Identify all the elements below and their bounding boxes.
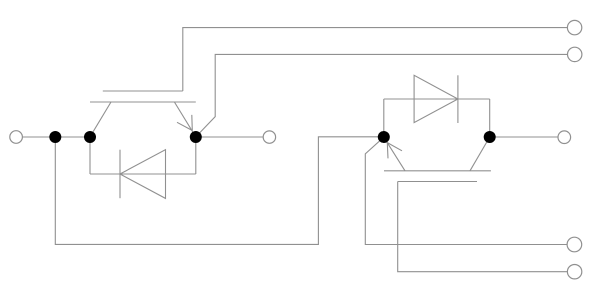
wire node D4 riser to diode D2 bbox=[383, 99, 385, 137]
IGBT Q1 emitter slant bbox=[174, 102, 195, 137]
wire node D5 riser from diode D2 bbox=[489, 99, 491, 137]
wire diode D1 horizontal bbox=[90, 173, 196, 175]
IGBT Q1 collector slant bbox=[90, 102, 111, 137]
wire main left terminal to node chain bbox=[22, 136, 90, 138]
junction dot D1 bbox=[49, 131, 61, 143]
wire node D3 up from diode bbox=[195, 137, 197, 174]
wire aux emitter E1 diagonal riser and top run bbox=[196, 54, 568, 136]
IGBT Q2 body bar bbox=[384, 170, 491, 172]
wire gate G2 drop and bottom run bbox=[398, 182, 568, 272]
wire gate G1 riser and top run bbox=[183, 28, 568, 91]
terminal circle left module output bbox=[263, 131, 275, 143]
diode D1 triangle bbox=[120, 150, 166, 199]
diode D2 cathode bar bbox=[457, 75, 459, 123]
IGBT Q2 collector slant bbox=[470, 137, 490, 171]
IGBT Q2 gate plate bbox=[398, 181, 477, 183]
IGBT Q2 emitter arrowhead bbox=[387, 143, 402, 159]
wire aux emitter E2 diagonal down to bottom terminal bbox=[365, 137, 567, 244]
terminal circle aux emitter E2 bbox=[567, 237, 582, 252]
IGBT Q2 emitter slant bbox=[384, 137, 405, 171]
IGBT Q1 emitter arrowhead bbox=[177, 115, 192, 131]
IGBT Q1 body bar bbox=[90, 101, 196, 103]
terminal circle gate G1 bbox=[567, 20, 581, 34]
junction dot D5 bbox=[484, 131, 496, 143]
terminal circle gate G2 bbox=[567, 265, 581, 279]
junction dot D4 bbox=[378, 131, 390, 143]
junction dot D3 bbox=[190, 131, 202, 143]
junction dot D2 bbox=[84, 131, 96, 143]
wire diode D2 horizontal bbox=[384, 98, 490, 100]
terminal circle right module collector bbox=[558, 131, 571, 144]
terminal circle aux emitter E1 bbox=[568, 47, 582, 61]
terminal circle left main bbox=[10, 131, 23, 144]
wire node D5 to right terminal bbox=[490, 136, 558, 138]
IGBT Q1 gate plate bbox=[103, 90, 183, 92]
diode D2 triangle bbox=[414, 75, 458, 122]
diode D1 cathode bar bbox=[119, 150, 121, 199]
wire node D3 to output terminal bbox=[196, 136, 263, 138]
wire junction D2 down to diode anode level bbox=[89, 137, 91, 174]
wire from junction D1 down to bottom bus bbox=[55, 137, 384, 245]
